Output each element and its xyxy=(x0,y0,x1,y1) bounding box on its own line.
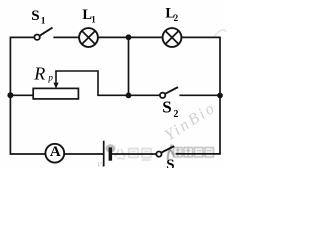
switch S1 lever xyxy=(40,28,53,36)
watermark top-right squiggle xyxy=(214,30,226,37)
wire battery to switch S xyxy=(112,153,156,155)
wire S2 to right side xyxy=(179,94,220,96)
watermark dark glyph fragment xyxy=(168,145,174,161)
wire from L2 to top-right corner xyxy=(181,36,220,38)
wire switch S to bottom-right corner xyxy=(176,153,220,155)
wire ammeter to battery xyxy=(64,153,103,155)
rheostat Rp slider arrow xyxy=(55,71,57,84)
watermark text 物理乐园 xyxy=(174,148,214,158)
svg-text:p: p xyxy=(47,73,53,83)
lamp L1 xyxy=(79,28,98,47)
switch S2 circle xyxy=(160,93,165,98)
wire middle link vertical xyxy=(128,37,130,95)
wire slider over-run xyxy=(55,71,98,95)
svg-text:S: S xyxy=(31,8,39,24)
switch S lever xyxy=(161,146,174,153)
node junction dot right xyxy=(217,93,223,99)
wire bottom-left corner to ammeter xyxy=(10,153,45,155)
node junction dot top xyxy=(126,34,132,40)
switch S1 circle xyxy=(34,35,39,40)
watermark text 公众号 xyxy=(115,149,151,161)
wire right vertical side xyxy=(219,37,221,155)
svg-text:2: 2 xyxy=(174,13,179,23)
lamp L2 xyxy=(163,28,182,47)
wire rheostat branch to S2 xyxy=(97,94,160,96)
svg-text:S: S xyxy=(162,97,171,116)
svg-text:A: A xyxy=(50,144,61,160)
wire top segment from top-left corner to S1 xyxy=(10,36,34,38)
wire from L1 to L2 xyxy=(98,36,163,38)
switch S circle xyxy=(156,152,161,157)
svg-text:2: 2 xyxy=(173,109,178,120)
wire left to rheostat xyxy=(10,94,33,96)
wire left vertical side xyxy=(9,37,11,155)
wire from S1 to L1 xyxy=(53,36,79,38)
ammeter A xyxy=(45,144,64,163)
svg-text:R: R xyxy=(33,64,45,84)
node junction dot left middle xyxy=(7,92,13,98)
rheostat Rp box xyxy=(33,88,78,99)
watermark blob on battery xyxy=(106,144,116,152)
svg-text:1: 1 xyxy=(91,15,96,25)
svg-text:S: S xyxy=(166,157,174,168)
svg-text:1: 1 xyxy=(41,16,46,26)
battery short plate xyxy=(109,147,113,160)
switch S2 lever xyxy=(165,87,178,94)
battery long plate xyxy=(103,141,105,167)
node junction dot middle xyxy=(126,93,132,99)
